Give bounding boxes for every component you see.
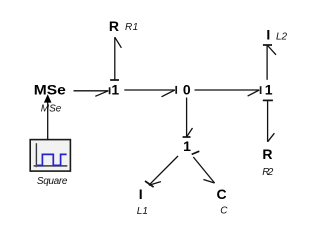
capacitor C (217, 186, 227, 202)
svg-text:MSe: MSe (34, 82, 66, 98)
bond 0 to 1 (right) (195, 86, 261, 96)
svg-text:I: I (139, 186, 143, 202)
junction 0 (183, 82, 191, 98)
source MSe (34, 82, 66, 98)
label L1 (137, 206, 148, 217)
inductor I (L1) (139, 186, 143, 202)
label C (220, 205, 228, 216)
bond 1 to 0 (124, 86, 176, 97)
bond 1 to R1 (110, 37, 121, 80)
svg-text:R: R (109, 18, 119, 34)
label L2 (276, 31, 288, 42)
svg-text:MSe: MSe (41, 104, 62, 115)
inductor I (L2) (266, 26, 270, 42)
svg-text:0: 0 (183, 82, 191, 98)
svg-text:I: I (266, 26, 270, 42)
svg-text:C: C (220, 205, 228, 216)
bond MSe to 1 (74, 87, 110, 96)
junction 1 (left) (111, 82, 119, 98)
resistor R (R1) (109, 18, 119, 34)
svg-text:Square: Square (37, 176, 68, 187)
resistor R (R2) (262, 146, 272, 162)
bond 1 (right) to I L2 (263, 45, 276, 80)
bond 1 (lower) to I L1 (145, 156, 178, 187)
svg-text:C: C (217, 186, 227, 202)
label R2 (262, 167, 273, 178)
svg-text:R: R (262, 146, 272, 162)
svg-text:1: 1 (111, 82, 119, 98)
svg-text:R2: R2 (262, 167, 273, 178)
signal wire Square to MSe (44, 94, 52, 139)
svg-text:1: 1 (183, 138, 191, 154)
label MSe (41, 104, 62, 115)
bond 0 to 1 (lower) (183, 98, 193, 138)
svg-text:R1: R1 (125, 22, 138, 33)
svg-text:L1: L1 (137, 206, 148, 216)
label Square (37, 176, 68, 187)
bond 1 (right) to R2 (263, 100, 275, 141)
bond 1 (lower) to C (192, 151, 215, 183)
junction 1 (lower) (183, 138, 191, 154)
label R1 (125, 22, 138, 33)
svg-text:1: 1 (265, 82, 273, 98)
svg-text:L2: L2 (276, 31, 288, 42)
block Square (30, 140, 70, 172)
junction 1 (right) (265, 82, 273, 98)
